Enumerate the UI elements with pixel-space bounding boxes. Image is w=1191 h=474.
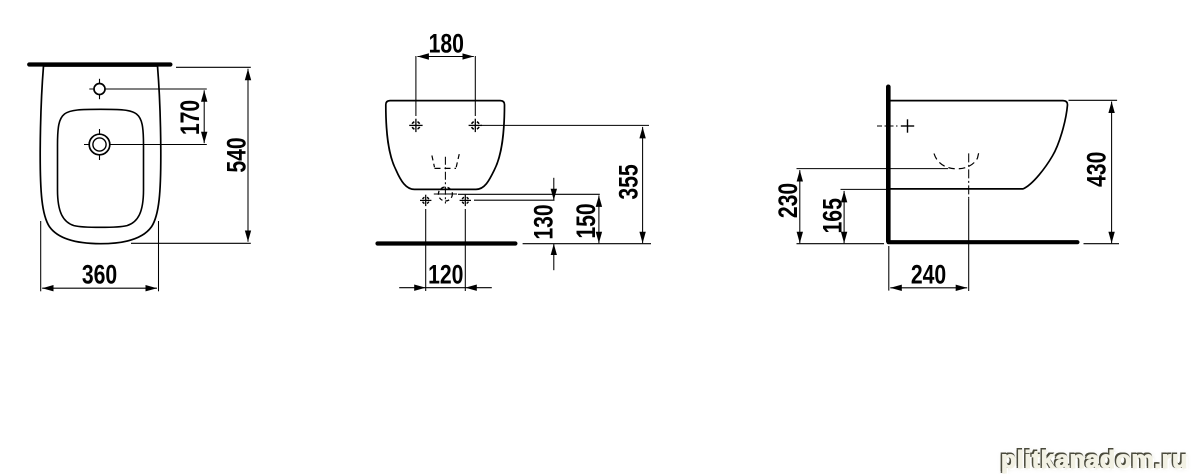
mounting hole cross (side view) [901, 125, 914, 127]
drain inner circle (top view) [93, 138, 106, 151]
dim 120 middle segment [426, 287, 466, 289]
dim line 360 [42, 287, 157, 289]
svg-text:120: 120 [428, 260, 463, 290]
dim line 230 [799, 170, 801, 243]
dim line 180 [417, 56, 473, 58]
svg-text:230: 230 [774, 183, 804, 218]
dim line 430 [1111, 102, 1113, 244]
faucet hole circle (top view) [94, 84, 105, 95]
extension line holes to dim 355 [481, 124, 649, 126]
dim 120 left outside arrow [399, 287, 426, 289]
svg-text:430: 430 [1082, 152, 1112, 187]
bidet body (side view) [890, 101, 1068, 189]
left fixing hole [422, 197, 429, 204]
extension line body bottom (165) [841, 188, 888, 190]
extension line left fixing hole (120) [425, 209, 427, 291]
extension line drain level (230) [797, 168, 949, 170]
extension line wall face (240) [888, 246, 890, 291]
faucet hole cross ticks (top view) [89, 88, 110, 90]
extension line drain level (150) [458, 193, 600, 195]
floor bar (front view) [378, 241, 516, 245]
drain horizontal tick (front view) [434, 193, 457, 195]
right mounting hole cross ticks [469, 124, 482, 126]
floor bar (side view) [889, 240, 1078, 244]
extension line faucet hole to dim 170 [105, 88, 207, 90]
drain centerline (front view) [444, 157, 446, 204]
svg-text:355: 355 [614, 164, 644, 199]
bidet body (front view) [386, 101, 505, 190]
dim line 165 [843, 191, 845, 243]
bidet outer outline (top view) [40, 66, 161, 244]
drain centerline extension to floor (240 right extension) [968, 199, 970, 291]
extension line fixing holes level (130) [474, 199, 555, 201]
right fixing hole cross ticks [460, 199, 471, 201]
svg-text:180: 180 [429, 29, 464, 59]
extension line bottom (540) [131, 242, 251, 244]
floor extension line left (side view) [797, 243, 885, 245]
left mounting hole cross ticks [409, 124, 422, 126]
extension line drain to dim 170 [110, 144, 207, 146]
extension line left (360) [40, 221, 42, 291]
dim line 150 [598, 195, 600, 243]
svg-text:165: 165 [818, 198, 848, 233]
dashed trap outline (side view) [934, 152, 979, 169]
svg-text:240: 240 [911, 260, 946, 290]
right mounting hole [471, 121, 479, 129]
drain cross ticks (top view) [84, 144, 116, 146]
dashed trap pocket (front view) [432, 156, 435, 168]
bidet inner bowl outline (top view) [58, 109, 144, 227]
extension line right (360) [158, 221, 160, 291]
watermark plitkanadom.ru [1001, 446, 1191, 474]
svg-text:170: 170 [176, 100, 206, 135]
dim 130 bottom arrow [553, 244, 555, 271]
extension line body top (430) [1069, 99, 1118, 101]
extension line top (540) [176, 66, 251, 68]
dim line 240 [890, 287, 967, 289]
svg-text:130: 130 [529, 204, 559, 239]
drain circle dashed (front view) [438, 187, 452, 201]
dim line 540 [247, 69, 249, 242]
svg-text:360: 360 [82, 260, 117, 290]
dim 130 top arrow [553, 178, 555, 200]
svg-text:150: 150 [572, 203, 602, 238]
left mounting hole [412, 121, 420, 129]
floor extension line right (side view) [1084, 243, 1120, 245]
right fixing hole [462, 197, 469, 204]
wall bar (side view) [886, 87, 891, 242]
drain centerline vertical (side view) [968, 153, 970, 199]
left fixing hole cross ticks [420, 199, 431, 201]
dim 120 right outside arrow [465, 287, 492, 289]
extension line right (180) [474, 56, 476, 116]
floor extension line (front view) [523, 243, 651, 245]
dash-dot line at hole level (side view) [877, 125, 899, 127]
dim line 170 [203, 90, 205, 143]
extension line right fixing hole (120) [464, 209, 466, 291]
svg-text:540: 540 [222, 137, 252, 172]
extension line left (180) [415, 56, 417, 116]
wall bar (top view) [29, 62, 170, 66]
dim line 355 [642, 127, 644, 243]
drain outer circle (top view) [89, 134, 110, 155]
